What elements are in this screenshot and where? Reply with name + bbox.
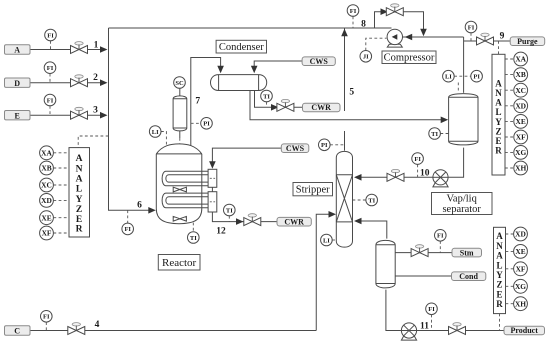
pump stream 10: [433, 170, 448, 187]
wire reboiler steam line: [395, 252, 452, 254]
gray stream label boxes: [5, 45, 31, 336]
svg-text:A: A: [496, 251, 503, 261]
svg-text:XD: XD: [515, 101, 526, 110]
instrument FI stream8: [347, 5, 359, 17]
svg-text:Z: Z: [76, 205, 82, 215]
svg-text:N: N: [496, 241, 503, 251]
wire reactor coil CWR stream 12: [212, 212, 277, 222]
wire CWS to reactor coil: [212, 148, 281, 167]
wire FI-3 tap: [49, 106, 51, 115]
svg-text:FI: FI: [47, 65, 54, 72]
svg-text:3: 3: [93, 105, 98, 115]
svg-text:FI: FI: [47, 32, 54, 39]
wire recycle top line stream 8: [109, 27, 392, 29]
svg-text:TI: TI: [190, 235, 197, 242]
svg-text:XE: XE: [516, 117, 526, 126]
svg-text:XD: XD: [515, 230, 526, 239]
svg-text:E: E: [496, 289, 502, 299]
svg-text:FI: FI: [350, 8, 357, 15]
instrument TI reactor: [188, 232, 200, 244]
svg-text:L: L: [495, 107, 501, 117]
node Stripper label: [293, 183, 333, 196]
wire XH tap: [505, 167, 514, 169]
svg-text:Z: Z: [495, 126, 501, 136]
wire TI reactor bottom tap: [192, 223, 194, 232]
svg-text:R: R: [495, 146, 502, 156]
valve feed 1: [71, 42, 88, 54]
reactor coil nozzle box upper: [208, 169, 217, 187]
svg-text:FI: FI: [414, 156, 421, 163]
svg-text:Z: Z: [496, 280, 502, 290]
wire feed C stream 4: [30, 330, 317, 332]
wire LI-PI separator taps: [454, 75, 471, 77]
wire LI stripper tap: [332, 239, 336, 241]
svg-text:N: N: [495, 88, 502, 98]
node feed C: [5, 326, 31, 335]
instrument JI compressor: [360, 51, 372, 63]
svg-text:L: L: [76, 185, 82, 195]
stream number labels: [93, 19, 505, 331]
svg-text:separator: separator: [442, 204, 481, 215]
wire compressor bypass: [375, 12, 424, 35]
instrument FI stream3: [44, 94, 56, 106]
reboiler E2 shell: [376, 240, 395, 288]
reactor stirrer lower: [173, 216, 186, 221]
wire XG tap: [505, 151, 514, 153]
analyzer top-right circles XA-XH: [505, 52, 528, 175]
svg-text:PI: PI: [473, 74, 480, 81]
svg-text:8: 8: [361, 19, 366, 29]
instrument FI stream11: [426, 303, 438, 315]
node Reactor label: [158, 255, 200, 271]
wire condenser CWR: [255, 91, 303, 108]
instrument TI stream12: [224, 204, 236, 216]
svg-text:A: A: [14, 46, 20, 55]
wire agitator stem top: [179, 88, 181, 96]
svg-text:PI: PI: [321, 142, 328, 149]
svg-text:1: 1: [94, 41, 99, 51]
separator V1 shell: [449, 94, 478, 145]
node CWR reactor: [277, 217, 311, 226]
node CWR condenser: [303, 103, 341, 112]
svg-text:XD: XD: [41, 196, 52, 205]
instrument FI stream2: [44, 62, 56, 74]
instrument SC agitator: [174, 77, 186, 89]
wire XE tap: [506, 250, 514, 252]
svg-text:TI: TI: [431, 131, 438, 138]
svg-text:Y: Y: [496, 270, 503, 280]
wire analyzer top-right sample: [498, 41, 500, 54]
wire CWS to condenser: [254, 61, 302, 72]
svg-text:A: A: [496, 231, 503, 241]
reactor coil nozzle box lower: [208, 192, 217, 212]
wire TI stripper tap: [353, 199, 366, 201]
wire XD tap: [506, 233, 514, 235]
instrument FI stream10: [412, 153, 424, 165]
wire XA tap: [53, 152, 69, 154]
wire PI-5 tap: [330, 144, 344, 146]
svg-text:10: 10: [420, 168, 430, 178]
svg-text:XA: XA: [41, 148, 52, 157]
node Condenser label: [216, 40, 266, 53]
valve feed 4: [68, 323, 85, 335]
svg-text:XG: XG: [515, 282, 526, 291]
instrument TI stripper: [366, 194, 378, 206]
valve steam: [411, 245, 428, 257]
svg-text:4: 4: [95, 320, 100, 330]
svg-text:E: E: [495, 136, 501, 146]
svg-text:TI: TI: [368, 197, 375, 204]
wire XG tap: [506, 285, 514, 287]
wire XB tap: [53, 167, 69, 169]
svg-text:7: 7: [195, 96, 200, 106]
svg-text:XF: XF: [42, 229, 52, 238]
valve stream 10: [387, 169, 404, 181]
wire XD tap: [505, 105, 514, 107]
svg-text:XH: XH: [515, 299, 526, 308]
wire agitator stem bottom: [179, 131, 181, 138]
node feed A: [5, 45, 31, 54]
node feed E: [5, 111, 31, 120]
svg-text:XC: XC: [41, 181, 52, 190]
wire FI-10 tap: [417, 164, 419, 177]
wire XC tap: [505, 89, 514, 91]
node Compressor label: [382, 51, 436, 64]
wire FI-9 tap: [470, 33, 472, 41]
svg-text:PI: PI: [203, 121, 210, 128]
svg-text:Condenser: Condenser: [219, 42, 264, 53]
wire PI-7 tap: [191, 122, 201, 124]
svg-text:TI: TI: [263, 93, 270, 100]
valve feed 2: [71, 75, 88, 87]
wire agitator shaft: [179, 138, 181, 215]
svg-text:Reactor: Reactor: [162, 257, 197, 269]
svg-text:Product: Product: [510, 326, 538, 335]
wire product line stream 11: [386, 290, 504, 331]
coil box tick upper: [210, 177, 215, 179]
svg-text:XH: XH: [515, 164, 526, 173]
wire feed D to header: [30, 82, 106, 84]
svg-text:XF: XF: [516, 264, 526, 273]
svg-text:D: D: [14, 79, 20, 88]
svg-text:E: E: [76, 215, 82, 225]
svg-text:Stripper: Stripper: [296, 185, 330, 196]
svg-text:LI: LI: [445, 74, 452, 81]
svg-text:XE: XE: [41, 213, 51, 222]
wire XF tap: [53, 232, 69, 234]
wire feed header vertical: [109, 28, 155, 210]
svg-text:E: E: [15, 111, 20, 120]
svg-text:LI: LI: [152, 129, 159, 136]
node Stm: [452, 248, 482, 257]
svg-text:9: 9: [500, 31, 505, 41]
svg-text:FI: FI: [124, 226, 131, 233]
wire TI condenser tap: [266, 102, 268, 108]
svg-text:5: 5: [349, 88, 354, 98]
svg-text:Y: Y: [76, 195, 83, 205]
analyzer bottom-right box: [494, 227, 506, 313]
coil box tick lower: [210, 201, 215, 203]
svg-text:12: 12: [216, 227, 226, 237]
wire separator vapor riser: [463, 37, 465, 93]
svg-text:SC: SC: [175, 80, 184, 87]
instrument TI condenser: [261, 90, 273, 102]
svg-text:Y: Y: [495, 117, 502, 127]
analyzer bottom-right circles XD-XH: [506, 227, 528, 311]
wire FI-11 tap: [431, 315, 433, 331]
valve purge 9: [477, 33, 494, 45]
wire TI-12 tap: [228, 216, 230, 222]
pump product 11: [401, 323, 416, 340]
svg-text:A: A: [76, 154, 83, 164]
svg-text:A: A: [495, 98, 502, 108]
svg-text:N: N: [76, 164, 83, 174]
svg-text:Compressor: Compressor: [384, 53, 435, 64]
svg-text:2: 2: [93, 73, 98, 83]
svg-text:L: L: [496, 260, 502, 270]
svg-text:XE: XE: [515, 247, 525, 256]
reactor cooling coil lower U: [162, 193, 208, 208]
reactor stirrer upper: [173, 187, 186, 192]
svg-text:CWS: CWS: [310, 57, 329, 66]
svg-text:Stm: Stm: [460, 248, 474, 257]
node Cond: [452, 272, 486, 281]
node CWS reactor: [281, 144, 309, 153]
wire feed A to header: [30, 49, 106, 51]
svg-text:FI: FI: [468, 24, 475, 31]
wire XE tap: [53, 217, 69, 219]
wire stream 5 stripper riser lower: [344, 131, 346, 151]
svg-text:C: C: [14, 327, 20, 336]
svg-text:11: 11: [420, 321, 429, 331]
svg-text:R: R: [76, 225, 83, 235]
stripper C1 shell: [336, 151, 352, 247]
wire analyzer left sample: [78, 136, 108, 148]
wire XB tap: [505, 74, 514, 76]
instrument FI stream4: [41, 311, 53, 323]
svg-text:CWS: CWS: [286, 144, 305, 153]
wire compressor suction: [403, 36, 464, 38]
svg-text:XB: XB: [516, 70, 526, 79]
wire XF tap: [505, 136, 514, 138]
instrument TI separator: [429, 128, 441, 140]
wire stream 4 riser into stripper: [316, 214, 334, 330]
wire reboiler condensate line: [395, 275, 451, 277]
instrument FI stream9: [465, 21, 477, 33]
wire XC tap: [53, 184, 69, 186]
dashed instrument and sample lines: [46, 16, 499, 330]
wire FI steam tap: [439, 241, 441, 253]
wire FI-1 tap: [50, 41, 52, 50]
wire LI separator vertical tap: [457, 83, 459, 93]
valve product 11: [449, 323, 466, 335]
wire FI-4 tap: [45, 322, 47, 330]
instrument PI reactor: [201, 118, 213, 130]
svg-text:FI: FI: [43, 314, 50, 321]
instrument LI separator: [443, 70, 455, 82]
svg-text:Purge: Purge: [517, 37, 538, 46]
flow arrows: [100, 46, 108, 53]
svg-text:LI: LI: [323, 237, 330, 244]
wire XD tap: [53, 199, 69, 201]
svg-text:XC: XC: [515, 86, 526, 95]
node feed D: [5, 78, 31, 87]
node Vap-liq separator label: [432, 193, 493, 215]
svg-text:XB: XB: [41, 164, 51, 173]
analyzer left sample circles XA-XF: [40, 146, 69, 240]
svg-text:XG: XG: [515, 148, 526, 157]
svg-text:A: A: [495, 78, 502, 88]
wire XA tap: [505, 58, 514, 60]
wire stream 5 stripper riser upper: [344, 28, 346, 111]
equipment name labels: [158, 40, 492, 270]
svg-text:FI: FI: [47, 97, 54, 104]
svg-text:R: R: [496, 299, 503, 309]
wire XF tap: [506, 268, 514, 270]
reactor R1 shell: [156, 144, 202, 224]
analyzer left box: [69, 148, 90, 237]
wire FI-8 tap: [352, 16, 354, 28]
svg-text:CWR: CWR: [311, 103, 331, 112]
svg-text:6: 6: [137, 201, 142, 211]
wire coil box connector: [211, 187, 213, 191]
stripper packing section: [336, 175, 352, 222]
wire analyzer bottom-right sample: [499, 314, 501, 331]
svg-text:CWR: CWR: [284, 217, 304, 226]
instrument FI steam: [435, 230, 447, 242]
wire FI-2 tap: [49, 74, 51, 83]
svg-text:TI: TI: [226, 207, 233, 214]
reactor cooling coil upper U: [162, 171, 208, 186]
svg-text:XA: XA: [515, 55, 526, 64]
wire stripper boilup loop: [356, 221, 387, 239]
wire XE tap: [505, 120, 514, 122]
reactor agitator housing: [173, 96, 187, 131]
valve reactor CWR 12: [244, 214, 261, 226]
svg-text:XF: XF: [516, 133, 526, 142]
instrument PI stream5: [319, 139, 331, 151]
condenser E1 shell: [211, 75, 267, 91]
wire purge branch stream 9: [464, 40, 511, 42]
valve feed 3: [71, 107, 88, 119]
wire XH tap: [506, 303, 514, 305]
wire feed E to header: [30, 114, 106, 116]
wire FI-6 tap: [127, 210, 129, 223]
node CWS condenser: [302, 57, 335, 66]
svg-text:JI: JI: [363, 54, 369, 61]
wire condenser outlet to separator: [250, 91, 447, 120]
svg-text:Cond: Cond: [459, 272, 478, 281]
node Purge: [510, 37, 545, 46]
svg-text:FI: FI: [428, 306, 435, 313]
valve condenser CWR: [277, 99, 294, 111]
node Product: [504, 326, 545, 335]
wire TI separator tap: [440, 133, 448, 135]
wire separator bottom to stream 10: [356, 148, 464, 178]
compressor K1: [387, 29, 402, 47]
instrument FI stream1: [45, 29, 57, 41]
instrument FI stream6: [122, 223, 134, 235]
instrument PI separator: [471, 70, 483, 82]
svg-text:A: A: [76, 174, 83, 184]
wire stream 7 reactor to condenser: [191, 58, 221, 147]
wire JI tap: [366, 38, 387, 50]
instrument LI stripper: [321, 234, 333, 246]
svg-text:FI: FI: [437, 233, 444, 240]
instrument LI reactor: [149, 126, 161, 138]
wire LI reactor tap: [161, 132, 166, 146]
analyzer top-right box: [492, 54, 505, 175]
valve compressor bypass: [386, 4, 403, 16]
